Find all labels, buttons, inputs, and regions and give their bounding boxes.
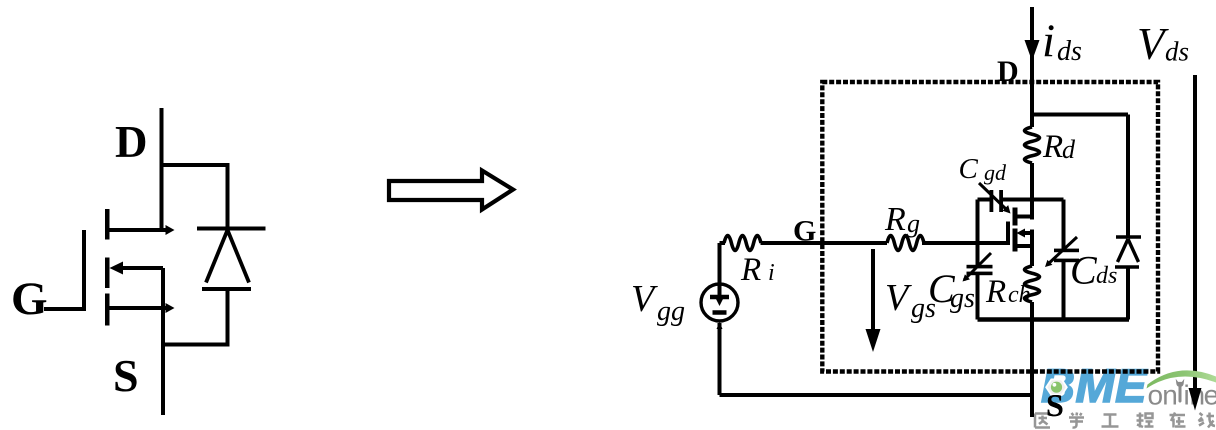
svg-text:V: V — [885, 277, 912, 319]
svg-text:ch: ch — [1008, 282, 1031, 308]
svg-text:ds: ds — [1057, 36, 1082, 67]
svg-text:g: g — [907, 209, 920, 238]
svg-text:C: C — [1070, 248, 1098, 293]
svg-text:gg: gg — [657, 296, 685, 327]
svg-text:S: S — [113, 350, 139, 401]
svg-text:i: i — [1042, 15, 1055, 67]
svg-text:R: R — [985, 274, 1006, 310]
svg-text:D: D — [115, 117, 148, 167]
svg-text:C: C — [959, 153, 979, 185]
svg-text:gs: gs — [950, 283, 975, 314]
svg-text:gd: gd — [984, 160, 1007, 185]
svg-text:R: R — [1042, 129, 1063, 165]
svg-text:D: D — [997, 55, 1019, 88]
svg-text:S: S — [1046, 387, 1064, 423]
svg-text:G: G — [11, 273, 48, 325]
svg-text:d: d — [1062, 135, 1076, 164]
svg-text:R: R — [740, 252, 761, 288]
svg-text:ds: ds — [1096, 263, 1117, 289]
svg-text:R: R — [884, 201, 906, 238]
svg-text:G: G — [793, 215, 816, 248]
svg-text:V: V — [631, 278, 658, 320]
svg-text:i: i — [768, 260, 775, 286]
svg-text:ds: ds — [1165, 37, 1189, 67]
